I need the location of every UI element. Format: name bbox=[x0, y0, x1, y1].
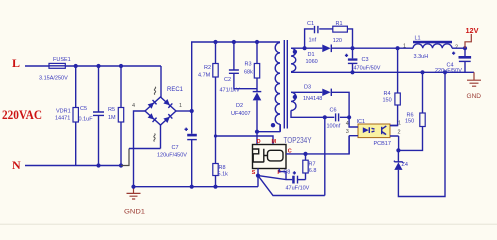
diode D1 1060 bbox=[322, 45, 330, 53]
zener Z4 bbox=[397, 150, 399, 161]
svg-text:C1: C1 bbox=[307, 21, 314, 27]
capacitor C6 100nf bbox=[336, 113, 339, 121]
resistor R7 bbox=[305, 154, 307, 180]
resistor R4 150 bbox=[390, 48, 398, 125]
svg-text:1N4148: 1N4148 bbox=[303, 96, 322, 102]
svg-text:471/1kV: 471/1kV bbox=[220, 88, 241, 94]
resistor R6 150 bbox=[398, 72, 422, 150]
svg-text:TOP234Y: TOP234Y bbox=[284, 136, 313, 145]
capacitor C4 220uF/50V bbox=[464, 48, 466, 72]
node junction L/R5 bbox=[119, 64, 123, 68]
transformer core bbox=[284, 40, 287, 129]
svg-text:PCB17: PCB17 bbox=[374, 141, 391, 147]
node junction pin1/C7 bbox=[190, 109, 194, 113]
diode bridge top-left bbox=[148, 100, 157, 109]
svg-text:220VAC: 220VAC bbox=[2, 107, 42, 122]
svg-text:6.8: 6.8 bbox=[309, 168, 317, 174]
svg-text:GND: GND bbox=[467, 93, 482, 100]
node junction S bbox=[256, 174, 260, 178]
ground GND1 bbox=[127, 187, 141, 199]
svg-text:FUSE1: FUSE1 bbox=[53, 57, 71, 63]
wire bias return to S rail bbox=[324, 117, 326, 195]
optocoupler IC1 PCB17 bbox=[358, 124, 390, 138]
node junction snubber left bbox=[303, 46, 307, 50]
svg-text:R2: R2 bbox=[204, 65, 211, 71]
node secondary polarity dot bbox=[293, 50, 297, 54]
wire primary bottom stub bbox=[279, 124, 281, 132]
diode bridge top-right bbox=[163, 99, 172, 108]
wire bias winding bottom bbox=[291, 110, 349, 117]
svg-text:D: D bbox=[257, 139, 261, 145]
wire pin3 to C line bbox=[348, 136, 350, 154]
wire secondary + rail bbox=[291, 47, 413, 49]
wire N to bridge pin3 (dark segment) bbox=[121, 149, 129, 166]
varistor VDR1 bbox=[75, 66, 77, 166]
op-amp U1 TOP234Y switcher box bbox=[253, 145, 287, 169]
wire bridge pin4 down to ground rail bbox=[134, 111, 146, 187]
svg-text:R7: R7 bbox=[309, 162, 316, 168]
transformer bias winding bbox=[291, 92, 296, 110]
svg-text:3.15A/250V: 3.15A/250V bbox=[39, 76, 68, 82]
resistor R3 bbox=[256, 42, 258, 91]
svg-text:C6: C6 bbox=[330, 108, 337, 114]
node junction R6 top bbox=[420, 70, 424, 74]
opto transistor bbox=[381, 127, 383, 134]
svg-text:R3: R3 bbox=[245, 62, 252, 68]
svg-text:R1: R1 bbox=[336, 21, 343, 27]
svg-text:C8: C8 bbox=[283, 169, 290, 175]
svg-text:47uF/10V: 47uF/10V bbox=[286, 186, 310, 192]
wire to bridge pin3 bbox=[129, 125, 161, 149]
node 12V output bbox=[465, 34, 471, 48]
capacitor C8 47uF/10V bbox=[292, 176, 295, 184]
fuse FUSE1 bbox=[45, 65, 70, 67]
node junction R8 bottom bbox=[213, 185, 217, 189]
wire bridge pin1 to C7 column bbox=[176, 110, 192, 112]
node junction N/R5 bbox=[119, 163, 123, 167]
svg-text:M: M bbox=[272, 139, 277, 145]
wire primary bottom lead bbox=[257, 124, 280, 131]
svg-text:470uF/50V: 470uF/50V bbox=[354, 66, 381, 72]
diode D2 UF4007 bbox=[253, 91, 262, 93]
capacitor C1 bbox=[315, 26, 318, 33]
svg-text:L1: L1 bbox=[415, 36, 421, 42]
wire M pin line from R2/R8 bbox=[216, 136, 274, 145]
opto LED bbox=[363, 127, 369, 133]
svg-text:1: 1 bbox=[179, 103, 182, 109]
transformer T1 primary winding bbox=[275, 43, 280, 125]
svg-text:D2: D2 bbox=[236, 103, 243, 109]
svg-text:120: 120 bbox=[333, 38, 342, 44]
svg-text:D1: D1 bbox=[308, 52, 315, 58]
node junction C/R7 bbox=[303, 152, 307, 156]
svg-text:3.3uH: 3.3uH bbox=[414, 54, 429, 60]
node junction R2 top bbox=[213, 40, 217, 44]
diode bridge bottom-left bbox=[148, 113, 157, 122]
svg-text:R5: R5 bbox=[108, 107, 115, 113]
svg-text:C5: C5 bbox=[80, 106, 87, 112]
svg-text:2: 2 bbox=[398, 130, 401, 136]
node junction drain bbox=[255, 130, 259, 134]
wire F pin path bbox=[279, 169, 286, 180]
wire L rail bbox=[70, 65, 161, 67]
node junction C3 bottom bbox=[350, 70, 354, 74]
capacitor C7 bbox=[191, 111, 193, 187]
node bias polarity dot bbox=[293, 95, 297, 99]
wire 0V return rail bbox=[291, 71, 474, 73]
svg-text:R8: R8 bbox=[219, 165, 226, 171]
svg-text:C7: C7 bbox=[172, 145, 179, 151]
wire S pin down to rail bbox=[257, 169, 259, 187]
svg-text:N: N bbox=[12, 158, 21, 172]
svg-text:D3: D3 bbox=[304, 85, 311, 91]
svg-text:68k: 68k bbox=[244, 70, 253, 76]
wire opto pin2 down bbox=[398, 136, 400, 150]
resistor R8 bbox=[215, 136, 217, 187]
svg-text:1: 1 bbox=[398, 121, 401, 127]
resistor R1 bbox=[333, 26, 348, 32]
svg-text:UF4007: UF4007 bbox=[231, 111, 251, 117]
node junction GND1 bbox=[131, 185, 135, 189]
svg-text:4: 4 bbox=[132, 103, 135, 109]
wire S to bias return diagonal bbox=[258, 176, 325, 196]
wire DC+ top rail bbox=[192, 42, 280, 111]
diode bridge bottom-right bbox=[163, 114, 172, 123]
svg-text:R4: R4 bbox=[384, 91, 391, 97]
node junction L/VDR1 bbox=[74, 64, 78, 68]
svg-text:C2: C2 bbox=[224, 77, 231, 83]
wire L rail down to bridge pin2 bbox=[160, 66, 162, 98]
svg-text:L: L bbox=[12, 56, 20, 70]
node junction zener top bbox=[396, 148, 400, 152]
svg-text:120uF/450V: 120uF/450V bbox=[157, 153, 187, 159]
svg-text:150: 150 bbox=[405, 119, 414, 125]
node junction L/C5 bbox=[96, 64, 100, 68]
wire N rail bbox=[25, 165, 121, 167]
svg-text:220uF/50V: 220uF/50V bbox=[435, 68, 462, 74]
wire zener return loop bbox=[398, 72, 445, 196]
wire rail to 12V bbox=[452, 47, 465, 49]
svg-text:C3: C3 bbox=[362, 57, 369, 63]
capacitor C5 bbox=[98, 66, 100, 166]
svg-text:VDR1: VDR1 bbox=[56, 109, 71, 115]
wire L to fuse bbox=[25, 65, 45, 67]
svg-text:GND1: GND1 bbox=[124, 209, 145, 216]
svg-text:REC1: REC1 bbox=[167, 87, 184, 93]
svg-text:1: 1 bbox=[403, 44, 406, 50]
ground GND output bbox=[467, 72, 481, 86]
wire S to C8 diagonal bbox=[258, 176, 292, 180]
node junction R3 top bbox=[255, 40, 259, 44]
node junction D3/pin4 bbox=[347, 115, 351, 119]
node junction C2 top bbox=[232, 40, 236, 44]
svg-text:100nf: 100nf bbox=[327, 124, 341, 130]
transformer secondary winding top bbox=[291, 48, 296, 71]
pin 2 tilde bbox=[154, 87, 155, 95]
wire opto pin stubs bbox=[349, 117, 399, 136]
wire primary bottom rail bbox=[134, 186, 259, 188]
svg-text:1nf: 1nf bbox=[309, 38, 317, 44]
svg-text:150: 150 bbox=[383, 98, 392, 104]
resistor R2 bbox=[215, 42, 217, 136]
svg-text:Z4: Z4 bbox=[402, 162, 408, 168]
node junction snubber right bbox=[350, 46, 354, 50]
svg-text:5.1k: 5.1k bbox=[218, 172, 229, 178]
capacitor C3 470uF/50V bbox=[352, 48, 354, 72]
node primary polarity dot bbox=[271, 123, 275, 127]
node junction C4 bbox=[463, 46, 467, 50]
wire D pin stub bbox=[256, 132, 258, 145]
svg-text:14471: 14471 bbox=[55, 116, 70, 122]
node junction R4 tap bbox=[396, 46, 400, 50]
svg-text:12V: 12V bbox=[466, 28, 479, 35]
svg-text:1060: 1060 bbox=[306, 59, 318, 65]
svg-text:IC1: IC1 bbox=[357, 119, 366, 125]
wire snubber loop bbox=[305, 29, 353, 48]
node junction C6 left bbox=[323, 115, 327, 119]
svg-text:0.1uF: 0.1uF bbox=[79, 117, 94, 123]
node junction C7 bottom bbox=[190, 185, 194, 189]
node junction feedback return bbox=[443, 70, 447, 74]
wire C pin line bbox=[286, 136, 349, 154]
pin 3 tilde bbox=[154, 134, 155, 142]
capacitor C2 bbox=[234, 42, 257, 89]
resistor R5 bbox=[120, 66, 122, 166]
svg-text:S: S bbox=[252, 170, 256, 176]
svg-text:1M: 1M bbox=[108, 115, 116, 121]
svg-text:3: 3 bbox=[346, 129, 349, 135]
svg-text:4.7M: 4.7M bbox=[198, 73, 211, 79]
node junction N/C5 bbox=[96, 163, 100, 167]
svg-text:4: 4 bbox=[346, 121, 349, 127]
